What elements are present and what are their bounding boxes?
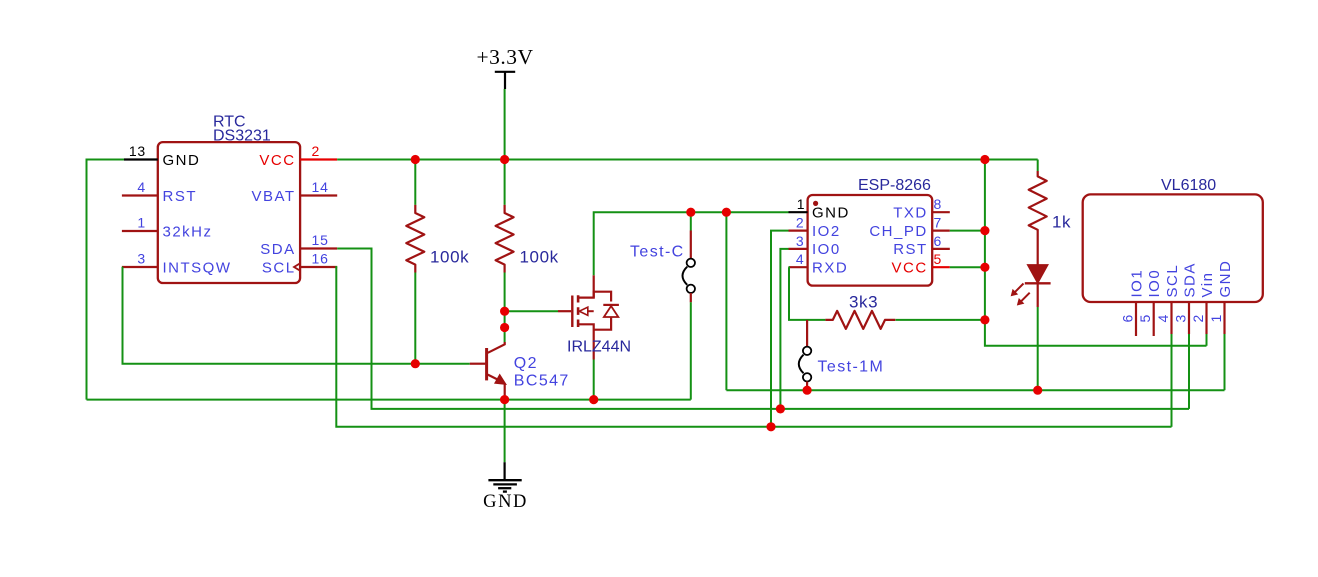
resistor R1 100k (left) [406, 160, 469, 364]
svg-text:5: 5 [934, 251, 942, 267]
svg-text:SDA: SDA [260, 241, 295, 258]
svg-text:3: 3 [796, 233, 805, 249]
wire IO2 to SCL rail [771, 231, 789, 427]
pin 2 IO2 of U2 [789, 215, 841, 240]
pin 1 GND of U3 [1208, 260, 1234, 334]
resistor R4 1k [1029, 160, 1071, 265]
node drain / Test-C [686, 208, 695, 217]
node gate tap [500, 307, 509, 316]
svg-text:GND: GND [483, 492, 528, 512]
svg-text:Vin: Vin [1199, 272, 1216, 298]
svg-text:5: 5 [1137, 314, 1153, 323]
component U1 RTC DS3231 [158, 114, 300, 284]
svg-text:SCL: SCL [1164, 264, 1181, 298]
wire U3 Vin down to Vin rail [1206, 334, 1208, 346]
resistor R2 100k (center) [496, 160, 559, 343]
switch Test-C [630, 212, 695, 302]
svg-text:RST: RST [893, 241, 928, 258]
svg-text:4: 4 [796, 251, 805, 267]
svg-text:100k: 100k [520, 248, 559, 267]
node LED bottom [1033, 386, 1042, 395]
pin 4 RST of U1 [122, 179, 197, 205]
LED D1 [1011, 265, 1050, 307]
pin 1 GND of U2 [789, 196, 850, 221]
svg-text:4: 4 [137, 179, 146, 195]
switch Test-1M [799, 320, 884, 390]
svg-text:7: 7 [934, 215, 943, 231]
pin 7 CH_PD of U2 [869, 215, 949, 240]
svg-text:+3.3V: +3.3V [476, 45, 533, 69]
wire ESP VCC to VCC vertical [950, 266, 985, 268]
pin 3 IO0 of U2 [789, 233, 841, 258]
svg-text:2: 2 [1190, 314, 1206, 323]
svg-text:CH_PD: CH_PD [869, 223, 927, 240]
component U2 ESP-8266 [808, 177, 933, 286]
wire VCC vertical net [985, 160, 1207, 346]
pin 2 Vin of U3 [1190, 272, 1216, 334]
svg-text:13: 13 [129, 143, 146, 159]
svg-text:SCL: SCL [262, 259, 296, 276]
svg-text:1k: 1k [1052, 213, 1071, 232]
svg-text:VCC: VCC [259, 152, 295, 169]
node Test-1M bottom [803, 386, 812, 395]
wire INTSQW down and right to base node [122, 267, 470, 364]
svg-text:IO2: IO2 [812, 223, 841, 240]
junction dots [411, 155, 1043, 432]
svg-text:3k3: 3k3 [849, 293, 878, 312]
svg-text:IO1: IO1 [1128, 269, 1145, 298]
pin 8 TXD of U2 [893, 196, 950, 221]
svg-text:VBAT: VBAT [252, 188, 296, 205]
svg-text:6: 6 [1120, 314, 1136, 323]
svg-text:1: 1 [797, 196, 805, 212]
pin 14 VBAT of U1 [252, 179, 338, 205]
node VCC / R1 top [411, 155, 420, 164]
svg-text:6: 6 [934, 233, 943, 249]
wire GND rail horizontal [87, 399, 691, 401]
pin 1 32kHz of U1 [122, 215, 213, 241]
node source / GND rail [589, 395, 598, 404]
svg-text:GND: GND [163, 152, 201, 169]
node VCC / right vertical [980, 155, 989, 164]
svg-text:3: 3 [137, 251, 146, 267]
svg-text:VCC: VCC [892, 260, 928, 277]
svg-text:16: 16 [312, 251, 329, 267]
svg-text:8: 8 [934, 196, 943, 212]
node base / R1 bottom [411, 359, 420, 368]
power symbol +3.3V [476, 45, 533, 89]
wire IO0 to SDA rail [780, 249, 788, 409]
wire LED cathode to switched-gnd rail [1037, 307, 1039, 390]
wire SDA pin to SDA rail [337, 249, 1189, 409]
ground symbol GND [483, 400, 528, 512]
wire CH_PD to VCC vertical [950, 230, 985, 232]
svg-text:VL6180: VL6180 [1161, 177, 1216, 194]
svg-text:4: 4 [1155, 314, 1171, 323]
svg-text:IRLZ44N: IRLZ44N [567, 339, 631, 356]
wire RTC GND pin to left rail [87, 160, 125, 400]
pin 3 INTSQW of U1 [122, 251, 232, 277]
pin 13 GND of U1 [124, 143, 200, 169]
wire U3 GND down to switched-gnd rail [1224, 334, 1226, 390]
wire 3k3 right to VCC vertical [896, 319, 985, 321]
svg-text:ESP-8266: ESP-8266 [858, 177, 931, 194]
svg-text:100k: 100k [430, 248, 469, 267]
node drain / down wire [722, 208, 731, 217]
pin 4 SCL of U3 [1155, 264, 1181, 334]
svg-text:Test-C: Test-C [630, 244, 685, 261]
svg-text:2: 2 [312, 143, 320, 159]
pin 2 VCC of U1 [259, 143, 337, 169]
wire SCL pin to SCL rail [336, 267, 1171, 427]
svg-text:Q2: Q2 [514, 355, 538, 372]
svg-text:INTSQW: INTSQW [163, 259, 232, 276]
node emitter / GND rail [500, 395, 509, 404]
wire U3 SCL down to SCL rail [1171, 334, 1173, 427]
svg-text:3: 3 [1173, 314, 1189, 323]
svg-text:DS3231: DS3231 [213, 128, 271, 145]
wire vertical drain rail to switched-gnd rail [725, 212, 727, 390]
wire MOSFET drain up to drain rail [594, 212, 789, 275]
wire Test-C bottom to GND rail [690, 302, 692, 399]
pin 3 SDA of U3 [1173, 262, 1199, 334]
wire RXD down to 3k3 node [789, 267, 826, 320]
wire +3.3V vertical to VCC rail [504, 89, 506, 160]
pin 5 IO0 of U3 [1137, 269, 1163, 336]
svg-text:RST: RST [163, 188, 198, 205]
node CH_PD [980, 226, 989, 235]
node collector [500, 323, 509, 332]
node 3k3 right [980, 315, 989, 324]
node VCC / 3.3V [500, 155, 509, 164]
svg-text:1: 1 [137, 215, 146, 231]
svg-text:2: 2 [796, 215, 805, 231]
pin 6 IO1 of U3 [1120, 269, 1146, 336]
pin 5 VCC of U2 [892, 251, 950, 276]
node IO0 / SDA rail [776, 404, 785, 413]
transistor Q2 BC547 [470, 342, 570, 400]
node IO2 / SCL rail [766, 422, 775, 431]
wire VCC rail top [337, 159, 1037, 161]
wire MOSFET source down to GND rail [593, 360, 595, 400]
svg-text:Test-1M: Test-1M [818, 359, 885, 376]
node ESP VCC [980, 263, 989, 272]
component U3 VL6180 [1083, 177, 1263, 302]
wire U3 SDA down to SDA rail [1188, 334, 1190, 409]
svg-text:GND: GND [1217, 260, 1234, 298]
svg-text:TXD: TXD [893, 205, 928, 222]
pin 15 SDA of U1 [260, 232, 337, 258]
pin 16 SCL of U1 (clock mark) [262, 251, 337, 277]
transistor U? MOSFET IRLZ44N [558, 275, 631, 359]
resistor R3 3k3 [825, 293, 895, 329]
svg-text:1: 1 [1208, 314, 1224, 323]
wire switched-gnd rail [726, 389, 1224, 391]
svg-text:IO0: IO0 [812, 241, 841, 258]
svg-text:SDA: SDA [1181, 262, 1198, 297]
pin 4 RXD of U2 [789, 251, 849, 276]
svg-text:32kHz: 32kHz [163, 223, 213, 240]
svg-text:15: 15 [312, 232, 329, 248]
svg-text:IO0: IO0 [1146, 269, 1163, 298]
svg-text:GND: GND [812, 205, 850, 222]
svg-text:RXD: RXD [812, 260, 848, 277]
svg-text:14: 14 [312, 179, 329, 195]
pin 6 RST of U2 [893, 233, 950, 258]
wire gate tap to MOSFET [505, 310, 558, 312]
svg-text:BC547: BC547 [514, 373, 570, 390]
